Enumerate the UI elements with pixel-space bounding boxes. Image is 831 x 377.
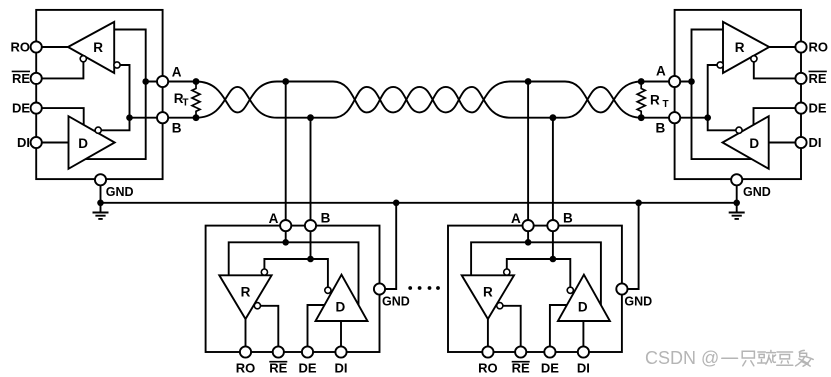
svg-text:DE: DE xyxy=(12,101,30,116)
svg-text:RE: RE xyxy=(12,71,30,86)
svg-text:D: D xyxy=(749,136,759,151)
svg-text:B: B xyxy=(172,120,182,135)
labels left transceiver xyxy=(11,40,189,199)
svg-text:R: R xyxy=(650,93,660,108)
svg-text:GND: GND xyxy=(743,185,771,199)
ground bus xyxy=(101,202,737,204)
svg-text:T: T xyxy=(663,99,669,110)
svg-text:RO: RO xyxy=(809,40,829,55)
glyph dou xyxy=(777,352,793,365)
svg-text:R: R xyxy=(735,40,745,55)
svg-text:DE: DE xyxy=(809,101,827,116)
RE overline right xyxy=(809,70,827,72)
glyph wan xyxy=(758,352,766,363)
RE overline left xyxy=(12,70,30,72)
svg-text:GND: GND xyxy=(106,185,134,199)
transceiver 1 (top-left) xyxy=(31,10,200,219)
glyph xiang xyxy=(796,350,814,366)
svg-text:CSDN @: CSDN @ xyxy=(645,348,719,368)
transceiver 3 (bottom-left) xyxy=(206,78,410,375)
transceiver 4 (bottom-right) xyxy=(448,78,652,375)
svg-text:DI: DI xyxy=(809,135,822,150)
svg-text:D: D xyxy=(78,136,88,151)
svg-text:B: B xyxy=(656,120,666,135)
svg-text:RE: RE xyxy=(809,71,827,86)
twisted pair wire B xyxy=(196,87,641,118)
glyph zhi xyxy=(742,351,754,366)
svg-text:T: T xyxy=(182,98,188,109)
transceiver 2 (top-right, mirrored) xyxy=(637,10,806,219)
twisted pair wire A xyxy=(196,82,641,113)
svg-text:A: A xyxy=(172,65,182,80)
svg-text:DI: DI xyxy=(17,135,30,150)
ellipsis dots between bottom transceivers xyxy=(408,286,440,290)
svg-text:A: A xyxy=(656,64,666,79)
svg-text:R: R xyxy=(93,40,103,55)
svg-text:RO: RO xyxy=(11,40,31,55)
labels right transceiver xyxy=(650,40,828,199)
glyph yi xyxy=(722,357,738,359)
